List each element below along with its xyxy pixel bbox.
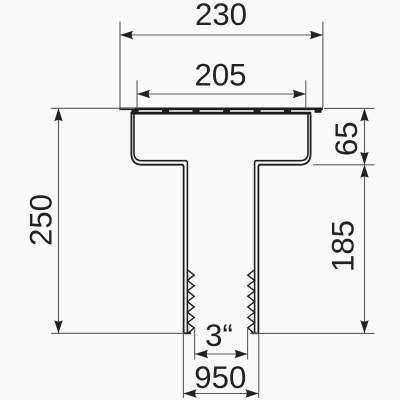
dimension 65 extension top <box>324 107 375 109</box>
svg-text:950: 950 <box>194 360 246 395</box>
dimension 230 arrows <box>120 31 133 39</box>
flange gap row <box>131 110 312 112</box>
dimension 3 inch arrows <box>195 350 208 358</box>
svg-text:65: 65 <box>329 121 364 156</box>
dimension 250 arrows <box>54 108 62 121</box>
dimension 205 line <box>137 93 306 95</box>
flange ticks <box>132 109 322 112</box>
thread teeth right <box>248 270 255 334</box>
dimension 950 extension right <box>258 333 260 398</box>
body inner wall left <box>134 115 187 334</box>
dimension 3 inch extension left <box>194 328 196 360</box>
dimension 250 extension top <box>51 107 135 109</box>
dimension 3 inch extension right <box>247 328 249 360</box>
dimension 185 arrows <box>360 165 368 178</box>
pipe bottom edge right <box>251 332 259 334</box>
dimension 65 line <box>364 108 366 164</box>
svg-text:3“: 3“ <box>205 318 233 353</box>
thread teeth left <box>187 270 194 334</box>
body outer wall left <box>131 115 183 334</box>
svg-text:205: 205 <box>194 58 246 93</box>
dimension 65 arrows <box>360 108 368 121</box>
svg-text:250: 250 <box>24 194 59 246</box>
pipe bottom edge left <box>183 332 191 334</box>
dimension 250 extension bottom <box>51 332 184 334</box>
dimension 250 line <box>58 108 60 333</box>
dimension 185 line <box>364 165 366 333</box>
dimension 205 arrows <box>137 90 150 98</box>
dimension 205 extension left <box>136 80 138 108</box>
body inner wall right <box>255 115 308 334</box>
dimension 950 extension left <box>182 333 184 398</box>
dimension 3 inch line <box>195 353 248 355</box>
svg-text:185: 185 <box>326 220 361 272</box>
dimension 950 arrows <box>184 389 197 397</box>
flange bottom plate (205 wide) <box>131 112 312 115</box>
dimension 230 line <box>120 34 323 36</box>
dimension 230 extension right <box>322 22 324 108</box>
dimension 205 extension right <box>305 80 307 108</box>
svg-text:230: 230 <box>195 0 247 32</box>
dimension 950 line <box>184 393 259 395</box>
dimension 185 extension bottom <box>250 332 375 334</box>
flange top plate (230 wide) <box>119 108 323 111</box>
dimension 230 extension left <box>119 22 121 108</box>
dimension 65 extension middle (shoulder) <box>313 164 375 166</box>
body outer wall right <box>258 115 310 334</box>
